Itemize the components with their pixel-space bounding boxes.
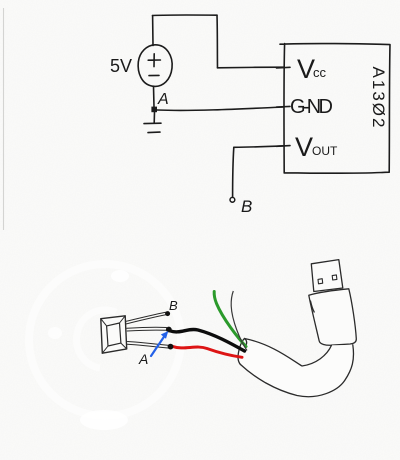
svg-text:OUT: OUT (312, 144, 338, 158)
voltage source V1 circle (138, 45, 172, 87)
watermark blob (111, 270, 129, 282)
wire top from 5V to corner (153, 14, 218, 16)
svg-text:A13Ø2: A13Ø2 (369, 67, 388, 130)
sensor package outline (101, 316, 127, 353)
wire 5V top lead (152, 16, 154, 46)
svg-text:B: B (169, 298, 178, 313)
lead wire bottom (127, 342, 168, 349)
cable upper outline (245, 339, 332, 367)
green wire (214, 292, 246, 347)
watermark ring (29, 264, 181, 416)
wire corner down to Vcc level (216, 15, 219, 68)
wire Vout to corner (234, 146, 284, 148)
cable body fill (238, 339, 354, 397)
cable cut fold (245, 339, 247, 346)
ground bar 1 (144, 122, 161, 124)
IC U1 box (280, 44, 390, 174)
arrow A blue (151, 335, 166, 357)
pin tick GND (277, 105, 291, 108)
svg-text:B: B (241, 197, 252, 216)
red wire (172, 346, 242, 357)
USB plug hole left (318, 279, 323, 284)
plus sign (148, 54, 160, 67)
svg-text:G-ND: G-ND (290, 96, 333, 118)
solder joint bottom (168, 344, 174, 350)
svg-text:cc: cc (313, 65, 327, 80)
ground stem (153, 112, 155, 123)
lead wire middle (127, 327, 167, 331)
pin tick Vout (277, 145, 291, 148)
wire corner down to node B (233, 147, 234, 197)
svg-text:A: A (138, 351, 148, 367)
watermark curl (77, 310, 116, 368)
USB body left edge detail (311, 301, 315, 312)
solder joint mid (166, 327, 172, 333)
lead wire B top (126, 312, 166, 324)
node B circle (230, 197, 235, 202)
watermark blob (48, 327, 62, 339)
sensor face (107, 323, 121, 346)
USB plug metal shell (311, 260, 343, 292)
node A square (151, 107, 157, 113)
sensor edge lines (101, 316, 127, 353)
wire to Vcc pin (218, 66, 285, 69)
ground bar 2 (148, 131, 160, 134)
svg-text:5V: 5V (110, 56, 132, 76)
solder joint B (165, 311, 170, 316)
cable cut face (238, 339, 245, 365)
svg-text:A: A (157, 91, 169, 108)
watermark blob (80, 410, 128, 430)
USB plug hole right (332, 275, 337, 280)
cable lower outline (241, 345, 354, 397)
minus sign (149, 74, 159, 76)
black wire (170, 329, 245, 351)
wire node A to GND pin (157, 107, 284, 110)
white wire outline (231, 291, 247, 351)
wire 5V bottom lead (153, 86, 156, 107)
svg-text:V: V (295, 132, 313, 162)
scan edge line (3, 8, 5, 230)
pin tick Vcc (277, 66, 291, 69)
USB plug body (309, 289, 357, 345)
